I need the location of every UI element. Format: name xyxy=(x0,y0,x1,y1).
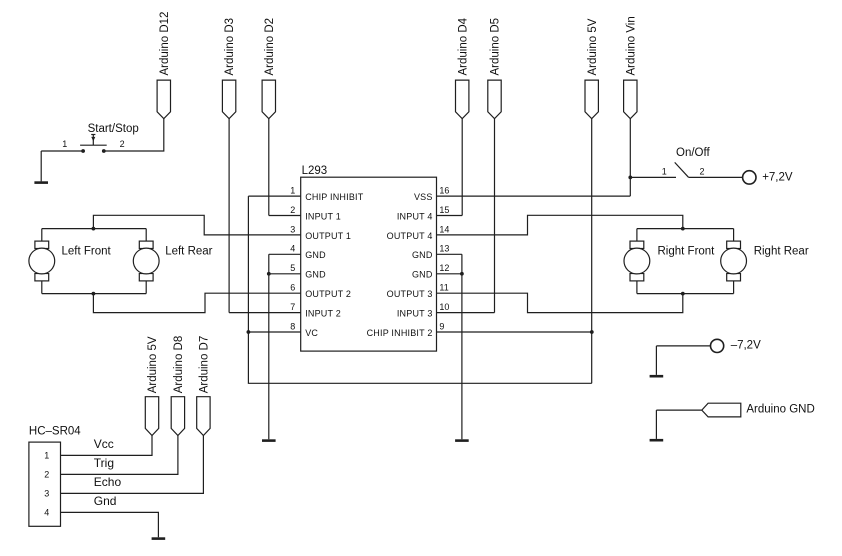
svg-text:1: 1 xyxy=(290,186,295,196)
svg-text:Arduino D12: Arduino D12 xyxy=(159,12,171,76)
svg-text:1: 1 xyxy=(44,451,49,461)
svg-text:9: 9 xyxy=(439,321,444,331)
svg-text:CHIP INHIBIT: CHIP INHIBIT xyxy=(305,192,364,202)
svg-text:GND: GND xyxy=(412,250,433,260)
svg-text:INPUT 4: INPUT 4 xyxy=(397,211,433,221)
svg-text:11: 11 xyxy=(439,283,448,293)
svg-text:Right Front: Right Front xyxy=(658,245,716,257)
svg-text:OUTPUT 4: OUTPUT 4 xyxy=(387,231,433,241)
svg-text:Arduino Vin: Arduino Vin xyxy=(625,16,637,75)
svg-text:Arduino D5: Arduino D5 xyxy=(490,18,502,76)
svg-text:OUTPUT 1: OUTPUT 1 xyxy=(305,231,351,241)
svg-text:Arduino D4: Arduino D4 xyxy=(457,17,469,75)
svg-text:10: 10 xyxy=(439,302,449,312)
svg-text:GND: GND xyxy=(305,270,326,280)
svg-text:OUTPUT 2: OUTPUT 2 xyxy=(305,289,351,299)
svg-text:Start/Stop: Start/Stop xyxy=(88,123,139,135)
svg-text:Gnd: Gnd xyxy=(94,494,117,508)
svg-text:16: 16 xyxy=(439,186,449,196)
svg-text:3: 3 xyxy=(290,224,295,234)
svg-text:VSS: VSS xyxy=(414,192,433,202)
svg-text:2: 2 xyxy=(700,166,705,176)
svg-text:+7,2V: +7,2V xyxy=(762,171,793,183)
svg-text:INPUT 2: INPUT 2 xyxy=(305,309,341,319)
svg-text:INPUT 1: INPUT 1 xyxy=(305,211,341,221)
svg-text:Arduino GND: Arduino GND xyxy=(746,404,814,416)
svg-text:4: 4 xyxy=(290,244,295,254)
svg-text:Arduino 5V: Arduino 5V xyxy=(147,336,159,393)
svg-text:15: 15 xyxy=(439,205,449,215)
svg-text:Trig: Trig xyxy=(94,456,114,470)
svg-text:1: 1 xyxy=(662,166,667,176)
svg-text:GND: GND xyxy=(412,270,433,280)
svg-text:L293: L293 xyxy=(302,165,328,177)
svg-text:–7,2V: –7,2V xyxy=(731,340,761,352)
svg-text:8: 8 xyxy=(290,321,295,331)
svg-text:Arduino D8: Arduino D8 xyxy=(173,336,185,394)
svg-text:13: 13 xyxy=(439,244,449,254)
svg-text:3: 3 xyxy=(44,489,49,499)
svg-text:HC–SR04: HC–SR04 xyxy=(29,426,81,438)
svg-text:GND: GND xyxy=(305,250,326,260)
svg-text:VC: VC xyxy=(305,328,318,338)
svg-text:2: 2 xyxy=(120,139,125,149)
svg-text:1: 1 xyxy=(62,139,67,149)
svg-text:Arduino D2: Arduino D2 xyxy=(264,18,276,76)
svg-text:12: 12 xyxy=(439,263,449,273)
svg-text:On/Off: On/Off xyxy=(676,147,710,159)
svg-text:CHIP INHIBIT 2: CHIP INHIBIT 2 xyxy=(367,328,433,338)
svg-text:Right Rear: Right Rear xyxy=(754,245,809,257)
svg-text:Left Front: Left Front xyxy=(62,245,112,257)
svg-text:2: 2 xyxy=(290,205,295,215)
svg-text:2: 2 xyxy=(44,470,49,480)
svg-text:4: 4 xyxy=(44,508,49,518)
svg-text:6: 6 xyxy=(290,283,295,293)
svg-text:Vcc: Vcc xyxy=(94,437,114,451)
svg-text:INPUT 3: INPUT 3 xyxy=(397,309,433,319)
svg-text:14: 14 xyxy=(439,224,449,234)
svg-text:Arduino D7: Arduino D7 xyxy=(199,336,211,394)
svg-text:7: 7 xyxy=(290,302,295,312)
svg-text:Echo: Echo xyxy=(94,475,122,489)
svg-text:OUTPUT 3: OUTPUT 3 xyxy=(387,289,433,299)
svg-text:5: 5 xyxy=(290,263,295,273)
svg-text:Arduino D3: Arduino D3 xyxy=(224,18,236,76)
svg-text:Arduino 5V: Arduino 5V xyxy=(587,18,599,75)
svg-text:Left Rear: Left Rear xyxy=(165,245,212,257)
